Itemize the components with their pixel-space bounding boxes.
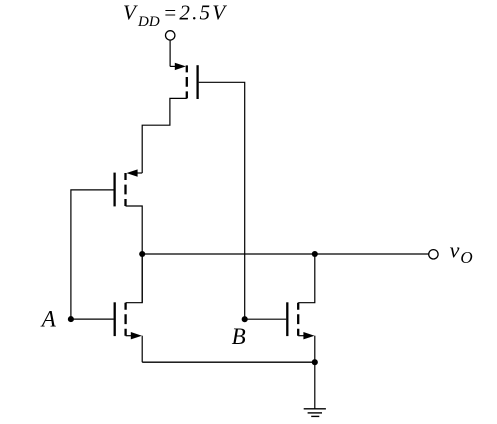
wire Q1 source stub xyxy=(170,65,179,67)
svg-text:O: O xyxy=(460,248,472,267)
svg-text:A: A xyxy=(40,307,57,332)
svg-text:v: v xyxy=(450,238,460,263)
label vO xyxy=(450,238,473,267)
node junction output-left xyxy=(139,251,145,257)
wire Q4 source stub xyxy=(298,335,305,337)
transistor Q4 NMOS gate bar xyxy=(286,302,288,336)
transistor Q3 NMOS gate bar xyxy=(114,302,116,336)
wire Q4 gate xyxy=(245,318,287,320)
svg-text:DD: DD xyxy=(137,14,160,30)
wire output line xyxy=(142,253,429,255)
wire Q1 drain staircase xyxy=(142,98,187,173)
wire Q3 source stub xyxy=(126,335,133,337)
transistor Q1 PMOS channel (dashed) xyxy=(186,65,188,98)
svg-text:=2.5V: =2.5V xyxy=(163,1,227,25)
arrow Q1 source (points into channel) xyxy=(175,63,186,70)
transistor Q3 NMOS channel (dashed) xyxy=(124,303,126,336)
wire Q4 source drop xyxy=(314,336,316,363)
wire ground rail xyxy=(142,361,315,363)
node junction ground xyxy=(312,359,318,365)
wire ground stem xyxy=(314,362,316,408)
arrow Q3 source (points away from channel) xyxy=(131,332,142,339)
wire Q1 gate to B line xyxy=(199,82,245,319)
wire VDD drop xyxy=(169,41,171,67)
wire Q4 drain up to output xyxy=(298,254,315,303)
node A junction xyxy=(68,316,74,322)
wire Q2 gate to node A xyxy=(71,190,114,319)
node B junction xyxy=(242,316,248,322)
wire Q2 source stub xyxy=(134,172,142,174)
label VDD = 2.5V xyxy=(123,1,227,30)
terminal VDD xyxy=(166,31,175,40)
ground symbol xyxy=(304,409,326,417)
transistor Q4 NMOS channel (dashed) xyxy=(297,303,299,336)
arrow Q2 source (points into channel) xyxy=(127,169,138,176)
transistor Q2 PMOS channel (dashed) xyxy=(124,173,126,206)
arrow Q4 source (points away from channel) xyxy=(303,332,314,339)
wire Q3 source drop xyxy=(141,336,143,363)
transistor Q1 PMOS gate bar xyxy=(196,65,198,99)
transistor Q2 PMOS gate bar xyxy=(113,173,115,207)
svg-text:V: V xyxy=(123,1,138,25)
svg-text:B: B xyxy=(232,324,246,349)
wire Q3 gate xyxy=(71,318,114,320)
wire Q3 drain up to output xyxy=(126,254,143,303)
terminal vO xyxy=(429,250,438,259)
wire Q2 drain down to output node xyxy=(126,206,143,303)
node junction output-right xyxy=(312,251,318,257)
